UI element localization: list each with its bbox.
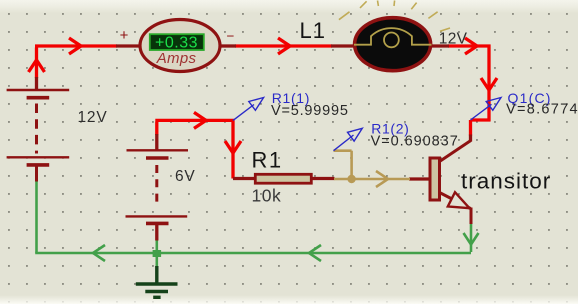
svg-text:12V: 12V (78, 109, 108, 126)
svg-text:R1: R1 (252, 148, 283, 173)
svg-text:6V: 6V (175, 168, 196, 185)
svg-text:10k: 10k (252, 186, 282, 206)
svg-text:−: − (227, 29, 235, 44)
svg-text:12V: 12V (439, 31, 468, 48)
svg-text:V=0.690837: V=0.690837 (371, 134, 459, 150)
svg-text:+0.33: +0.33 (155, 34, 198, 51)
svg-text:+: + (120, 27, 129, 44)
svg-text:V=8.6774: V=8.6774 (506, 102, 578, 118)
svg-text:L1: L1 (300, 18, 326, 43)
svg-text:transitor: transitor (461, 169, 551, 194)
svg-text:Amps: Amps (156, 50, 197, 67)
svg-text:V=5.99995: V=5.99995 (271, 103, 349, 119)
